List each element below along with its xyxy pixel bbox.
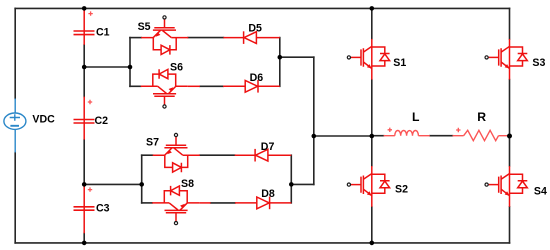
svg-text:S2: S2 (395, 183, 408, 195)
svg-text:C3: C3 (96, 203, 110, 215)
svg-text:C2: C2 (95, 115, 109, 127)
svg-text:L: L (412, 110, 420, 124)
svg-text:S4: S4 (534, 186, 547, 198)
svg-text:S1: S1 (393, 57, 406, 69)
svg-text:D8: D8 (261, 188, 275, 200)
svg-text:S7: S7 (146, 137, 159, 149)
svg-text:S8: S8 (181, 178, 194, 190)
svg-text:D7: D7 (261, 141, 275, 153)
svg-text:D6: D6 (250, 72, 264, 84)
svg-text:S3: S3 (532, 57, 545, 69)
svg-text:S5: S5 (138, 21, 151, 33)
svg-text:C1: C1 (96, 26, 110, 38)
svg-text:S6: S6 (170, 61, 183, 73)
svg-text:VDC: VDC (32, 113, 55, 125)
svg-text:D5: D5 (248, 23, 262, 35)
svg-text:R: R (477, 110, 486, 124)
